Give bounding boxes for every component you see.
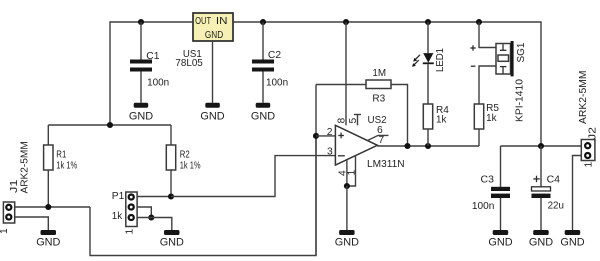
buzzer SG1 KPI-1410 <box>479 22 514 104</box>
wire P1 pin1 to R2 node <box>137 196 171 198</box>
ground C3 <box>488 230 512 249</box>
svg-text:GND: GND <box>160 237 184 249</box>
op-amp U2 LM311N triangle <box>335 125 377 165</box>
svg-text:1k: 1k <box>436 114 447 125</box>
resistor R5 <box>474 103 499 146</box>
wire top rail right (IN side to corner) <box>233 22 541 146</box>
svg-text:GND: GND <box>529 237 553 249</box>
connector J1 ARK2-5MM <box>3 202 14 223</box>
svg-text:8: 8 <box>337 118 348 124</box>
svg-text:GND: GND <box>205 30 223 41</box>
svg-text:5: 5 <box>348 118 359 124</box>
wire feedback vertical to sensor net <box>315 85 317 256</box>
wire power line bottom right <box>501 145 582 147</box>
svg-text:J2: J2 <box>588 127 599 140</box>
svg-text:1: 1 <box>347 170 358 176</box>
wire pin2 horizontal <box>316 135 335 137</box>
svg-text:ARK2-5MM: ARK2-5MM <box>578 71 589 125</box>
svg-text:GND: GND <box>200 110 224 122</box>
wire +5V horizontal to R1/R2 <box>48 124 171 126</box>
svg-text:1: 1 <box>125 229 136 235</box>
svg-text:R3: R3 <box>372 93 385 104</box>
wire regulator GND stem <box>212 41 214 103</box>
node junction pin8 tap <box>343 19 349 25</box>
svg-text:LM311N: LM311N <box>367 159 405 170</box>
svg-text:1: 1 <box>0 228 10 234</box>
node junction J1/R1 <box>45 204 51 210</box>
pins 4 and 1 to ground <box>346 160 348 186</box>
plus label C4 <box>533 176 539 182</box>
node junction +5V at x110 <box>107 122 113 128</box>
node junction LED tap <box>425 19 431 25</box>
capacitor C2 <box>252 22 288 103</box>
svg-text:100n: 100n <box>472 201 495 212</box>
ground regulator <box>200 103 224 123</box>
wire J1 pin2 to ground <box>15 217 49 230</box>
svg-text:R1: R1 <box>56 150 66 161</box>
svg-text:KPI-1410: KPI-1410 <box>515 79 526 122</box>
node junction P1 pins 2-3 <box>148 214 154 220</box>
svg-text:IN: IN <box>216 16 228 27</box>
svg-text:1k: 1k <box>112 211 123 222</box>
svg-text:2: 2 <box>327 127 333 138</box>
wire J1 sensor line to pin2 of comparator <box>90 136 316 256</box>
svg-text:C2: C2 <box>268 50 281 61</box>
minus sign inside <box>338 155 345 157</box>
svg-text:100n: 100n <box>147 78 169 89</box>
svg-text:GND: GND <box>335 237 359 249</box>
resistor R3 1M feedback <box>316 68 408 146</box>
svg-text:GND: GND <box>488 237 512 249</box>
node junction rail/C4/J2 <box>538 143 544 149</box>
wire J2 pin2 to ground <box>573 156 582 231</box>
svg-text:OUT: OUT <box>195 16 212 27</box>
capacitor C1 <box>130 22 169 103</box>
svg-text:ARK2-5MM: ARK2-5MM <box>20 141 31 193</box>
capacitor C4 electrolytic <box>532 146 565 230</box>
svg-text:GND: GND <box>560 237 584 249</box>
ground J2 <box>560 230 584 249</box>
node junction C2 tap <box>260 19 266 25</box>
svg-text:1k 1%: 1k 1% <box>180 160 201 171</box>
ground U2 <box>335 230 359 249</box>
wire P1 pin2 to pin3 joint <box>137 207 151 218</box>
svg-text:LED1: LED1 <box>435 48 446 72</box>
diode LED1 <box>423 22 434 104</box>
svg-text:78L05: 78L05 <box>175 58 203 69</box>
svg-text:GND: GND <box>251 110 275 122</box>
pin 6 stub <box>368 135 389 140</box>
svg-text:J1: J1 <box>9 179 20 193</box>
svg-text:C3: C3 <box>481 174 495 185</box>
wire output line <box>377 145 479 147</box>
wire P1 pin3 to ground <box>137 218 172 231</box>
connector P1 trimmer 1k <box>126 192 137 227</box>
node junction pin2 <box>313 133 319 139</box>
capacitor C3 <box>472 146 510 230</box>
svg-text:C4: C4 <box>547 174 561 185</box>
plus label SG1 <box>470 45 475 50</box>
resistor R2 <box>166 125 200 197</box>
wire J1 pin1 to node <box>15 206 90 208</box>
ground P1 <box>160 230 184 249</box>
node junction R4 bottom <box>425 143 431 149</box>
svg-text:1: 1 <box>584 162 595 168</box>
svg-text:1k: 1k <box>486 113 497 124</box>
wire top rail left (OUT side) <box>110 22 193 125</box>
svg-text:7: 7 <box>378 135 384 146</box>
LED arrows <box>412 55 420 67</box>
svg-text:100n: 100n <box>266 78 288 89</box>
ground C2 <box>251 103 275 123</box>
plus sign inside <box>338 135 344 137</box>
wire threshold net R2/P1 to pin3 <box>171 156 335 197</box>
resistor R4 <box>423 104 449 146</box>
svg-text:1M: 1M <box>372 68 386 79</box>
svg-text:SG1: SG1 <box>516 42 527 62</box>
wire pin8 V+ vertical <box>345 22 347 125</box>
pin 5 stub <box>357 115 359 126</box>
minus label SG1 <box>471 65 476 67</box>
svg-text:22u: 22u <box>548 201 565 212</box>
svg-text:C1: C1 <box>146 51 159 62</box>
node junction R2/P1 <box>168 193 174 199</box>
resistor R1 <box>44 125 78 207</box>
svg-text:R2: R2 <box>180 150 190 161</box>
svg-text:GND: GND <box>36 237 60 249</box>
node junction C1 tap <box>138 19 144 25</box>
svg-text:1k 1%: 1k 1% <box>56 160 77 171</box>
node junction R3 right <box>404 143 410 149</box>
svg-text:3: 3 <box>327 147 333 158</box>
ground C4 <box>529 230 553 249</box>
ground C1 <box>129 103 153 123</box>
ground J1 <box>36 230 60 249</box>
connector J2 ARK2-5MM <box>581 140 595 161</box>
svg-text:GND: GND <box>129 110 153 122</box>
svg-text:P1: P1 <box>112 191 125 202</box>
node junction SG1 tap <box>476 19 482 25</box>
op-amp U1 regulator box 78L05 <box>193 13 233 41</box>
